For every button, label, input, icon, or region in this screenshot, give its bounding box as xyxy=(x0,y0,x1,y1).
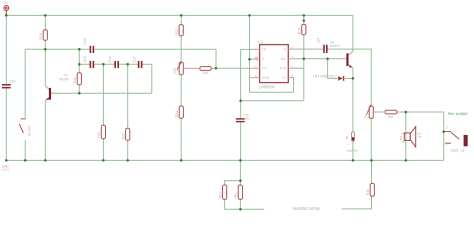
IC1 pin names xyxy=(262,47,287,79)
wire left column bottom (C19 to rail) xyxy=(5,88,7,160)
wire R19 to DIS row xyxy=(303,35,305,68)
wire top V+ rail xyxy=(6,14,353,16)
svg-text:C24: C24 xyxy=(316,37,320,43)
wire R22 column upper xyxy=(127,64,129,128)
resistor R17 xyxy=(179,25,183,36)
wire caps row segment 2 xyxy=(93,63,114,65)
svg-text:Q: Q xyxy=(284,47,287,51)
capacitor C15 xyxy=(90,61,95,68)
wire pot bottom to rail xyxy=(370,118,372,160)
svg-text:V+: V+ xyxy=(282,76,286,80)
capacitor C24 xyxy=(323,45,327,53)
wire C21 to rail xyxy=(352,141,354,160)
wire R21 column lower xyxy=(102,139,104,161)
capacitor C20 xyxy=(236,118,245,122)
wire caps row corner down xyxy=(151,64,153,93)
svg-text:R20: R20 xyxy=(73,77,77,83)
wire resistor array top feed xyxy=(239,160,241,180)
resistor R41 xyxy=(385,110,397,114)
wire low horizontal (TR/THR net) xyxy=(241,100,304,102)
wire bottom ground rail xyxy=(6,159,443,161)
resistor R19 xyxy=(302,24,306,34)
wire diode anode link xyxy=(328,77,338,79)
svg-text:line output: line output xyxy=(448,111,468,116)
svg-text:R15: R15 xyxy=(366,189,370,195)
wire caps row segment 3 xyxy=(118,63,138,65)
wire switch column lower xyxy=(24,140,26,161)
wire resistor array bottom xyxy=(225,208,265,210)
wire R16 to wire A xyxy=(44,40,46,49)
wire diode cathode link xyxy=(345,77,353,79)
wire rail drop to T8 collector xyxy=(352,15,354,51)
svg-text:CV: CV xyxy=(262,66,267,70)
wire wiper row to R41 xyxy=(373,111,384,113)
wire R17 column (rail to R17) xyxy=(180,15,182,24)
transistor T8 xyxy=(344,51,353,68)
svg-text:+9V: +9V xyxy=(2,1,9,5)
wire C20 column lower xyxy=(240,122,242,160)
resistor R18 xyxy=(200,67,212,71)
wire A horizontal (right segment after C22) xyxy=(93,48,216,50)
op-amp timer IC1 box xyxy=(260,45,289,83)
wire THR row xyxy=(293,67,304,69)
transistor T9 xyxy=(45,86,53,101)
capacitor C21 polarized xyxy=(347,132,355,141)
resistor R24 xyxy=(179,106,183,118)
svg-text:GND1: GND1 xyxy=(1,168,9,172)
svg-text:R21: R21 xyxy=(97,131,101,137)
resistor R13 xyxy=(223,185,227,199)
wire trimmer bottom to R24 xyxy=(180,75,182,106)
svg-text:BC337: BC337 xyxy=(330,44,340,48)
svg-text:R19: R19 xyxy=(298,28,302,34)
wire R21 column upper xyxy=(102,64,104,125)
trimmer R23 xyxy=(177,62,188,75)
jack connector line output xyxy=(445,132,459,144)
svg-text:P1: P1 xyxy=(363,114,367,118)
wire A horizontal (left segment) xyxy=(25,48,90,50)
svg-text:C16: C16 xyxy=(108,56,112,62)
IC1 pin numbers xyxy=(255,45,294,77)
svg-text:C15: C15 xyxy=(83,56,87,62)
wire R19 column (rail to R19) xyxy=(303,15,305,24)
svg-text:R41: R41 xyxy=(388,115,394,119)
wire R pin link xyxy=(250,58,255,60)
svg-text:IC1: IC1 xyxy=(258,40,264,44)
capacitor C22 xyxy=(90,46,95,53)
wire diode column xyxy=(327,59,329,79)
wire T8 emitter column to C21 xyxy=(352,68,354,132)
wire C20 column upper xyxy=(240,101,242,118)
resistor R20 xyxy=(77,73,81,85)
resistor R15 xyxy=(370,183,374,196)
svg-text:1802_U1: 1802_U1 xyxy=(451,149,465,153)
svg-text:S1 405: S1 405 xyxy=(28,126,32,136)
wire R20 column upper xyxy=(78,49,80,72)
wire CV row to IC xyxy=(214,67,256,69)
wire THR column up xyxy=(303,68,305,101)
svg-text:R24: R24 xyxy=(175,111,179,117)
svg-text:C17: C17 xyxy=(133,56,137,62)
wire R22 column lower xyxy=(127,140,129,160)
svg-text:R13: R13 xyxy=(218,192,222,198)
wire output column up xyxy=(443,112,445,160)
svg-text:THR: THR xyxy=(279,66,286,70)
svg-text:LM555N: LM555N xyxy=(259,84,275,89)
wire caps row segment 4 xyxy=(142,63,152,65)
svg-text:BC337: BC337 xyxy=(59,77,69,81)
wire R15 column below rail xyxy=(371,160,373,183)
switch S1 xyxy=(19,119,25,133)
svg-text:R18: R18 xyxy=(202,71,208,75)
capacitor C16 xyxy=(114,61,119,68)
wire R13 bottom stub xyxy=(224,199,226,209)
svg-text:1W: 1W xyxy=(417,135,422,139)
wire R41 to speaker column xyxy=(398,111,406,113)
svg-text:R16: R16 xyxy=(39,33,43,39)
wire Q row (C24 to pot corner) xyxy=(327,48,371,50)
resistor R16 xyxy=(43,30,47,41)
wire R15 bottom stub xyxy=(342,196,372,209)
wire Q corner down to pot xyxy=(370,49,372,105)
IC1 reset pin triangle xyxy=(255,57,258,60)
svg-text:resistor array: resistor array xyxy=(293,206,321,211)
potentiometer P1 xyxy=(366,105,376,119)
wire T9 collector column xyxy=(44,49,46,86)
wire DIS row to T8 base xyxy=(293,58,344,60)
wire T9 emitter column xyxy=(44,101,46,161)
svg-text:C22: C22 xyxy=(83,38,87,44)
wire R14 top stub xyxy=(239,181,241,185)
wire R20 column lower xyxy=(78,85,80,94)
wire Q row (IC to C24) xyxy=(293,48,323,50)
svg-text:10u/25v: 10u/25v xyxy=(346,149,358,153)
wire switch column upper xyxy=(24,49,26,119)
resistor R22 xyxy=(126,128,130,140)
capacitor C17 xyxy=(138,61,143,68)
capacitor C19 xyxy=(2,84,11,88)
svg-text:R14: R14 xyxy=(234,192,238,198)
wire resistor array top link xyxy=(225,181,241,185)
svg-text:C19: C19 xyxy=(9,79,15,83)
wire TR column down xyxy=(240,49,242,100)
resistor R14 xyxy=(238,185,242,199)
svg-text:DIS: DIS xyxy=(281,57,287,61)
speaker SP1 xyxy=(404,127,415,147)
svg-text:TR: TR xyxy=(262,48,267,52)
wire R17 to trimmer xyxy=(180,36,182,62)
svg-text:10n: 10n xyxy=(244,117,249,121)
IC1 pin stubs xyxy=(255,49,293,78)
wire caps row segment 1 xyxy=(79,63,90,65)
wire R14 bottom stub xyxy=(239,199,241,209)
wire speaker column to jack column xyxy=(406,111,444,113)
resistor R21 xyxy=(101,125,105,138)
svg-text:R22: R22 xyxy=(122,133,126,139)
wire reset column (rail to R pin and U loop) xyxy=(249,15,251,92)
svg-text:1N4148DO35-7: 1N4148DO35-7 xyxy=(313,74,337,78)
wire U loop right up to V+ pin xyxy=(292,78,295,93)
wire R24 bottom to rail xyxy=(180,118,182,160)
wire GND pin link xyxy=(250,77,256,79)
svg-text:SP1: SP1 xyxy=(399,135,403,141)
wire R16 column (rail to R16) xyxy=(44,15,46,29)
wire U loop bottom xyxy=(250,91,294,93)
wire speaker column down xyxy=(405,112,407,160)
svg-text:R17: R17 xyxy=(175,28,179,34)
wire TR corner to IC xyxy=(241,48,256,50)
wire T9 base rail xyxy=(51,92,152,94)
supply symbol +9V xyxy=(4,6,9,15)
diode D1 xyxy=(338,76,344,81)
svg-text:GND: GND xyxy=(262,76,270,80)
svg-text:R23: R23 xyxy=(173,68,177,74)
wire A corner down to CV row xyxy=(215,49,217,68)
wire left column top (supply to C19) xyxy=(5,15,7,84)
